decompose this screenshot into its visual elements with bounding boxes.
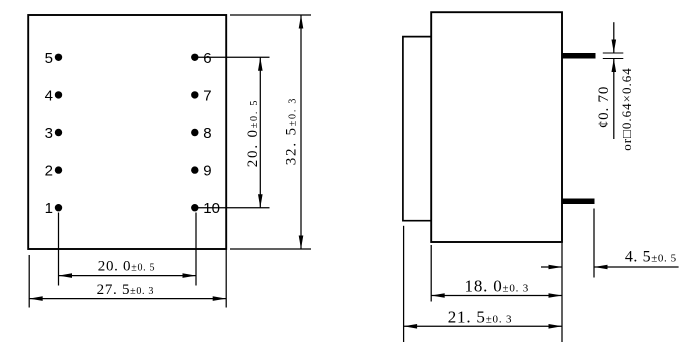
pin 5 dot (55, 54, 62, 61)
svg-text:9: 9 (203, 163, 211, 180)
svg-text:1: 1 (45, 200, 53, 217)
dimension 21.5±0.3 (404, 324, 562, 329)
pin 10 dot (191, 204, 198, 211)
pin diameter dimension leader (612, 22, 617, 139)
horizontal dimension 27.5±0.3 (29, 296, 226, 301)
svg-text:¢0. 70: ¢0. 70 (596, 86, 612, 128)
svg-text:27. 5±0. 3: 27. 5±0. 3 (97, 282, 154, 298)
extension line below pin 10 (195, 213, 197, 286)
svg-text:4: 4 (45, 87, 53, 104)
dimension 4.5±0.5 (541, 265, 679, 270)
svg-text:20. 0±0. 5: 20. 0±0. 5 (245, 99, 261, 168)
pin 1 dot (55, 204, 62, 211)
bottom pin (side view) (562, 199, 595, 205)
svg-text:3: 3 (45, 125, 53, 142)
extension line below pin 1 (58, 213, 60, 286)
svg-text:4. 5±0. 5: 4. 5±0. 5 (625, 249, 677, 266)
svg-text:21. 5±0. 3: 21. 5±0. 3 (448, 307, 513, 326)
extension line through pin 6 (195, 56, 270, 58)
svg-text:7: 7 (203, 87, 211, 104)
pin 2 dot (55, 166, 62, 173)
svg-text:20. 0±0. 5: 20. 0±0. 5 (98, 259, 156, 275)
pin 3 dot (55, 129, 62, 136)
pin 7 dot (191, 91, 198, 98)
horizontal dimension 20.0±0.5 (59, 273, 197, 278)
svg-text:10: 10 (203, 200, 220, 217)
pin 8 dot (191, 129, 198, 136)
vertical dimension 32.5±0.3 (299, 15, 304, 249)
svg-text:18. 0±0. 3: 18. 0±0. 3 (465, 277, 530, 296)
svg-text:8: 8 (203, 125, 211, 142)
bottom edge extension line (230, 248, 311, 250)
extension line through pin 10 (195, 207, 270, 209)
extension line below body left edge (right view) (430, 245, 432, 302)
extension line below body right edge (right view) (561, 243, 563, 342)
extension line below body left edge (28, 255, 30, 308)
right view: mounting flange outline (403, 37, 431, 221)
svg-text:2: 2 (45, 163, 53, 180)
dimension 18.0±0.3 (431, 293, 562, 298)
pin 6 dot (191, 54, 198, 61)
right view: package body outline (431, 12, 562, 242)
vertical dimension 20.0±0.5 (258, 57, 263, 207)
pin 9 dot (191, 166, 198, 173)
extension line below body right edge (225, 250, 227, 308)
svg-text:6: 6 (203, 50, 211, 67)
extension line below flange left edge (403, 226, 405, 342)
pin diameter extension tick bottom (603, 58, 624, 60)
pin 4 dot (55, 91, 62, 98)
extension line below pin end (593, 209, 595, 278)
pin diameter extension tick top (603, 52, 624, 54)
top pin (side view) (562, 53, 596, 59)
svg-text:32. 5±0. 3: 32. 5±0. 3 (283, 97, 299, 166)
left view: package body outline (28, 15, 226, 249)
top edge extension line (230, 14, 311, 16)
svg-text:5: 5 (45, 50, 53, 67)
svg-text:or□0.64×0.64: or□0.64×0.64 (619, 67, 634, 151)
